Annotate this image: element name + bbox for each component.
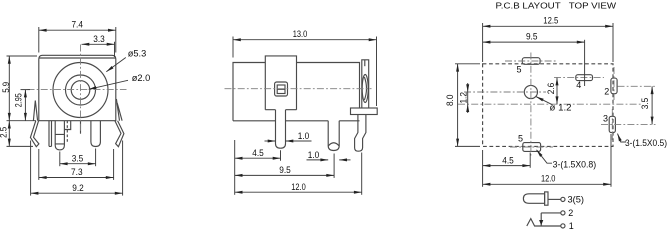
svg-text:13.0: 13.0: [293, 29, 308, 39]
svg-text:3-(1.5X0.8): 3-(1.5X0.8): [553, 159, 597, 169]
svg-text:3(5): 3(5): [568, 194, 585, 204]
svg-text:4.5: 4.5: [252, 148, 264, 158]
svg-text:7.4: 7.4: [71, 20, 83, 30]
svg-text:3-(1.5X0.5): 3-(1.5X0.5): [625, 138, 667, 148]
svg-text:1.0: 1.0: [308, 150, 320, 160]
svg-text:3.5: 3.5: [640, 98, 650, 110]
svg-text:4: 4: [576, 80, 581, 90]
svg-text:8.0: 8.0: [445, 95, 455, 107]
svg-text:2.5: 2.5: [0, 127, 8, 138]
svg-text:2: 2: [604, 87, 609, 97]
svg-text:1.0: 1.0: [298, 131, 310, 141]
svg-text:9.2: 9.2: [72, 183, 84, 193]
svg-text:12.0: 12.0: [541, 173, 556, 183]
svg-text:ø5.3: ø5.3: [128, 49, 147, 59]
svg-text:ø 1.2: ø 1.2: [550, 103, 572, 113]
svg-text:4.5: 4.5: [502, 156, 514, 166]
svg-text:5: 5: [518, 133, 523, 143]
svg-text:1: 1: [569, 221, 574, 229]
svg-text:ø2.0: ø2.0: [132, 73, 151, 83]
svg-text:3: 3: [603, 114, 608, 124]
svg-text:3.5: 3.5: [72, 153, 84, 163]
svg-text:P.C.B LAYOUT TOP VIEW: P.C.B LAYOUT TOP VIEW: [496, 0, 618, 10]
svg-text:5.9: 5.9: [1, 82, 11, 93]
svg-text:2: 2: [568, 208, 573, 218]
svg-text:2.95: 2.95: [14, 93, 24, 107]
svg-text:12.0: 12.0: [291, 182, 306, 192]
svg-text:3.3: 3.3: [93, 34, 105, 44]
svg-text:1.2: 1.2: [459, 92, 469, 104]
svg-text:7.3: 7.3: [71, 167, 83, 177]
svg-text:12.5: 12.5: [543, 16, 558, 26]
svg-text:9.5: 9.5: [279, 165, 291, 175]
svg-text:5: 5: [516, 64, 521, 74]
svg-text:9.5: 9.5: [526, 32, 538, 42]
svg-text:2.6: 2.6: [546, 83, 556, 95]
